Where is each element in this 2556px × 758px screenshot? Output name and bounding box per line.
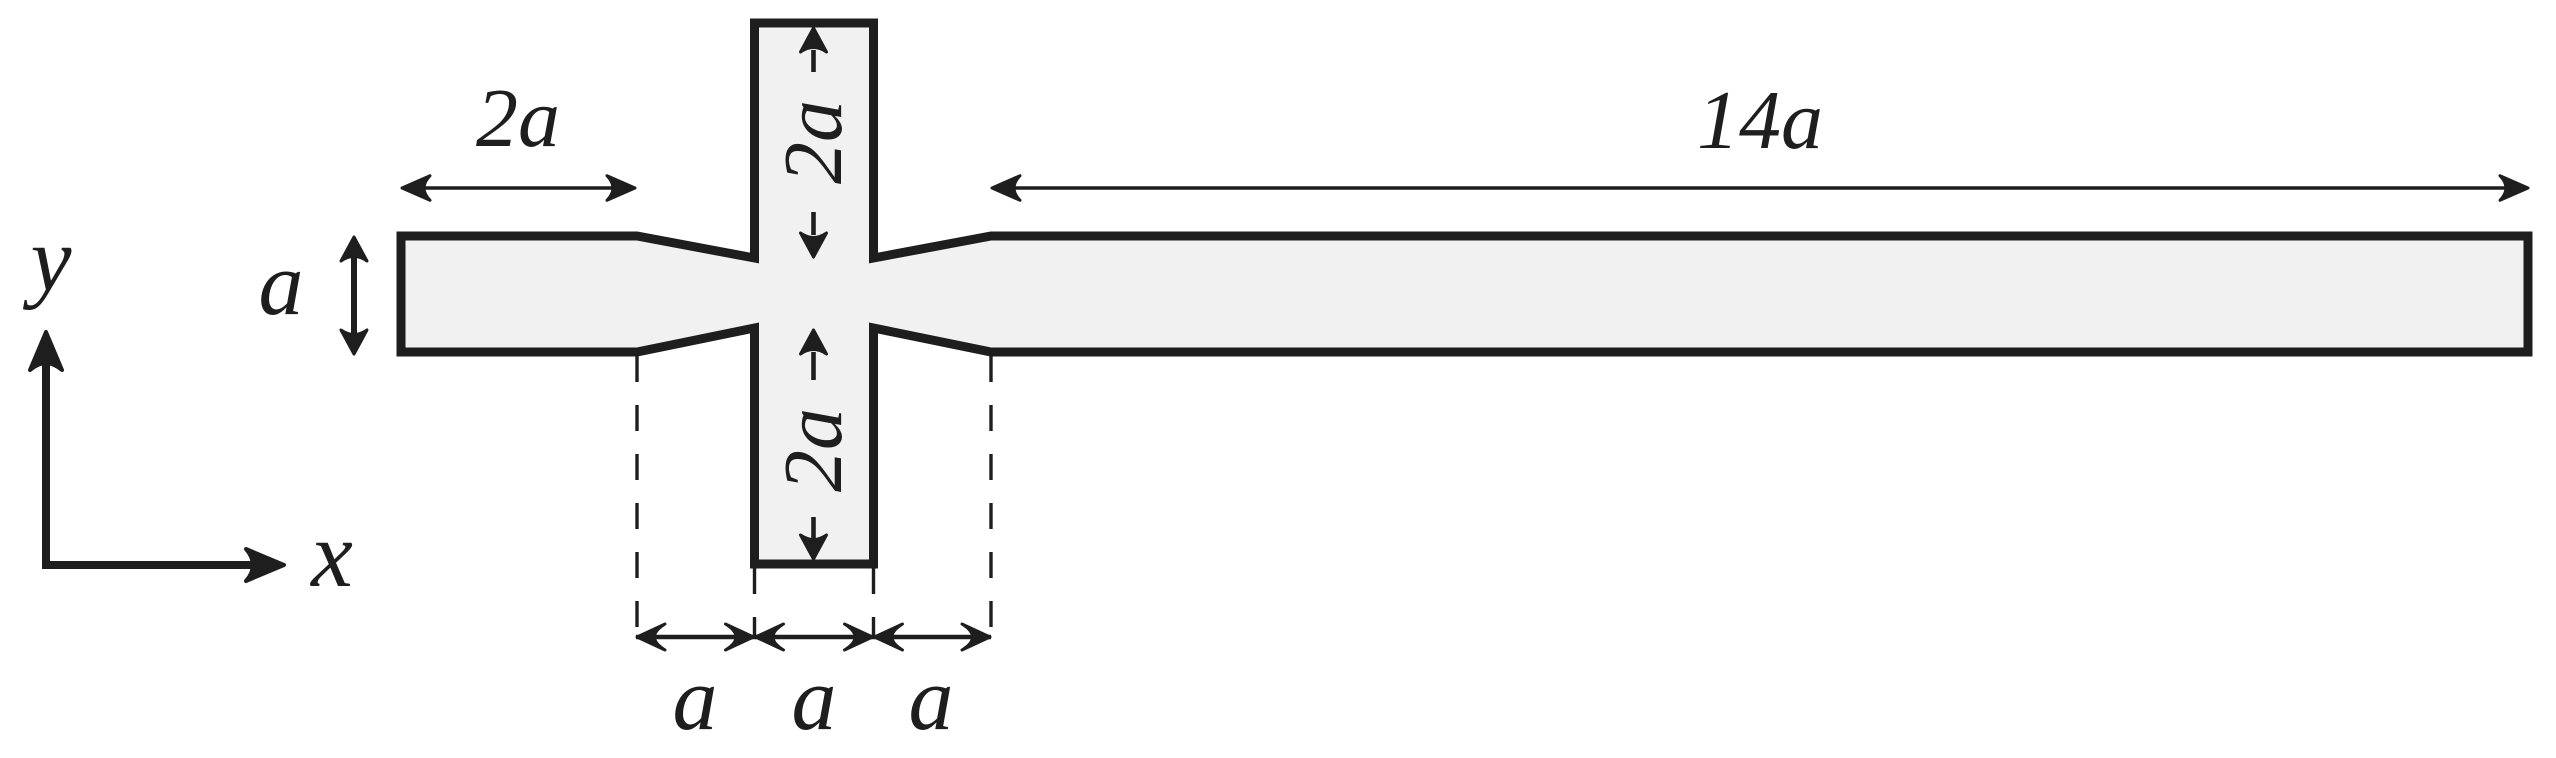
bottom dim: far-left arrowhead [637, 624, 665, 650]
dimension 14a top-right: line [994, 186, 2526, 190]
x axis arrowhead [246, 549, 284, 581]
y axis arrowhead [30, 332, 62, 370]
svg-text:2a: 2a [476, 72, 560, 165]
dimension a left: top arrowhead [341, 237, 367, 261]
bottom dim: arrowhead from 873.5 to right [875, 624, 903, 650]
vertical bar bottom 2a dim: down arrow line [811, 517, 816, 540]
svg-text:a: a [259, 235, 304, 334]
dimension a left: bottom arrowhead [341, 330, 367, 354]
vertical bar top 2a dim: up arrow line [811, 50, 816, 72]
dashed extension below vertical bar right edge [872, 568, 875, 638]
vertical bar top 2a dim: up arrowhead [801, 28, 827, 52]
svg-text:2a: 2a [767, 408, 860, 492]
dimension 2a top-left: line [404, 186, 633, 190]
dimension 2a top-left: right arrowhead [607, 176, 635, 201]
bottom dim: arrowhead to 754.5 from left [726, 624, 754, 650]
y axis [42, 358, 50, 565]
dimension a left height: line [351, 239, 357, 352]
bottom dim: arrowhead from 754.5 to right [756, 624, 784, 650]
svg-text:14a: 14a [1697, 74, 1823, 167]
svg-text:y: y [23, 208, 72, 310]
dashed extension line left (x=637) [635, 356, 638, 638]
x axis [42, 561, 252, 569]
vertical bar bottom 2a dim: up arrowhead [801, 330, 827, 354]
svg-text:a: a [909, 650, 954, 749]
vertical bar bottom 2a dim: up arrow line [811, 352, 816, 380]
vertical bar bottom 2a dim: down arrowhead [801, 535, 827, 559]
dashed extension line right (x=991) [989, 356, 992, 638]
dimension 2a top-left: left arrowhead [402, 176, 430, 201]
dashed extension below vertical bar left edge [753, 568, 756, 638]
svg-text:x: x [309, 503, 353, 607]
bottom dim: arrowhead to 873.5 from left [845, 624, 873, 650]
dimension 14a top-right: left arrowhead [992, 176, 1020, 201]
dimension 14a top-right: right arrowhead [2500, 176, 2528, 201]
svg-text:2a: 2a [767, 100, 860, 184]
bottom dimension line a a a [636, 635, 991, 639]
vertical bar top 2a dim: down arrowhead [801, 233, 827, 257]
cross-shaped plate outline [401, 23, 2528, 564]
bottom dim: far-right arrowhead [962, 624, 990, 650]
svg-text:a: a [673, 650, 718, 749]
vertical bar top 2a dim: down arrow line [811, 212, 816, 235]
svg-text:a: a [792, 650, 837, 749]
